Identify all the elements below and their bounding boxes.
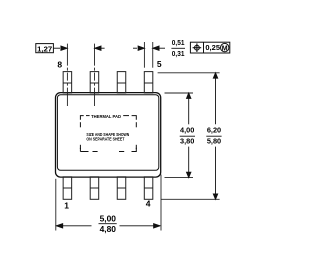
svg-text:4,80: 4,80 (100, 224, 117, 234)
pin 8 (top) (63, 72, 72, 93)
pin 7 (top) (90, 72, 99, 93)
M modifier (circle M) (221, 43, 229, 52)
svg-text:1: 1 (64, 201, 69, 211)
svg-text:0,31: 0,31 (172, 49, 185, 58)
pin 2 (bottom) (90, 177, 99, 200)
svg-text:THERMAL PAD: THERMAL PAD (91, 114, 122, 119)
thermal pad dashed outline (80, 116, 136, 152)
right upper extension line (pin tips top) (158, 72, 220, 74)
svg-text:5,80: 5,80 (207, 137, 221, 146)
pin 5 (top) (144, 72, 153, 93)
IC body outer outline (56, 93, 161, 178)
right lower extension line (pin tips bottom) (161, 198, 220, 200)
svg-text:M: M (222, 45, 228, 52)
svg-text:6,20: 6,20 (207, 126, 221, 135)
dimension 5,00/4,80 horizontal line with arrows (56, 224, 159, 228)
pin 4 (bottom) (144, 177, 153, 200)
right extension line body bottom (165, 177, 194, 179)
dimension 6,20/5,80 vertical line with arrows (213, 73, 217, 200)
svg-text:1,27: 1,27 (37, 44, 52, 53)
right extension line body top (165, 92, 194, 94)
pin 8 centerline (dimension extension) (66, 44, 68, 106)
svg-text:5,00: 5,00 (100, 214, 117, 224)
svg-text:4,00: 4,00 (180, 126, 194, 135)
pin 3 (bottom) (117, 177, 126, 200)
pin 7 centerline (dimension extension) (93, 44, 95, 106)
svg-text:ON SEPARATE SHEET: ON SEPARATE SHEET (86, 137, 124, 142)
svg-text:3,80: 3,80 (180, 137, 194, 146)
bottom left extension line (55, 179, 57, 231)
dimension 0,51/0,31 arrows (133, 46, 165, 50)
dimension 1,27 leader and arrows (53, 46, 104, 50)
bottom right extension line (160, 175, 162, 231)
feature control frame (190, 42, 229, 53)
svg-text:0,25: 0,25 (205, 43, 220, 52)
IC body inner outline (57, 95, 158, 171)
pin 6 (top) (117, 72, 126, 93)
svg-text:0,51: 0,51 (172, 38, 185, 47)
svg-text:4: 4 (146, 198, 151, 208)
svg-text:8: 8 (57, 59, 62, 69)
dimension 0,51/0,31 extension lines (143, 42, 145, 68)
pin 1 (bottom) (63, 177, 72, 200)
svg-text:5: 5 (157, 59, 162, 69)
position symbol (193, 43, 202, 52)
dimension 4,00/3,80 vertical line with arrows (187, 93, 191, 178)
dimension 1,27 basic box (36, 44, 54, 53)
